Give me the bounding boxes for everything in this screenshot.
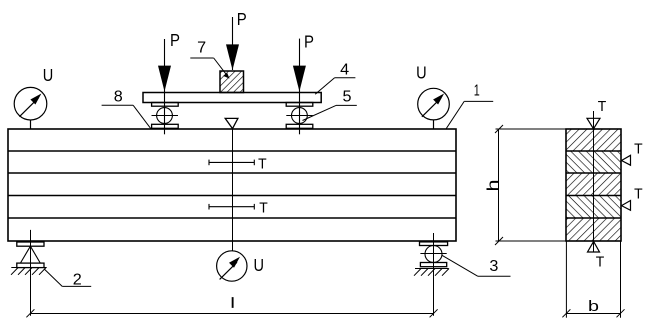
svg-text:T: T bbox=[258, 155, 267, 172]
leader 2 bbox=[44, 269, 91, 287]
dimension b extension left bbox=[565, 241, 567, 318]
roller right bottom plate bbox=[286, 124, 313, 128]
support right crosshair bbox=[420, 253, 446, 255]
dimension h tick bottom bbox=[495, 237, 503, 245]
svg-text:h: h bbox=[485, 180, 502, 192]
leader 3 bbox=[442, 255, 511, 276]
lamination line 4 bbox=[8, 217, 456, 219]
support left (pin): upper plate bbox=[17, 242, 44, 246]
dimension l tick right bbox=[430, 309, 438, 317]
dimension h extension top bbox=[496, 128, 567, 130]
dimension l tick left bbox=[26, 309, 34, 317]
svg-text:U: U bbox=[416, 63, 427, 83]
svg-text:b: b bbox=[588, 299, 599, 315]
center pointer triangle bbox=[225, 118, 238, 128]
beam centerline bbox=[232, 129, 234, 251]
section pointer right 1 bbox=[622, 155, 631, 165]
support right hatching bbox=[414, 269, 449, 276]
beam (test specimen) outline bbox=[8, 129, 456, 241]
svg-text:U: U bbox=[254, 255, 265, 275]
svg-text:U: U bbox=[43, 65, 54, 85]
load line P center bbox=[232, 17, 234, 70]
svg-text:P: P bbox=[237, 9, 247, 29]
svg-text:5: 5 bbox=[343, 89, 352, 106]
dimension h line bbox=[498, 129, 500, 241]
dimension l line bbox=[31, 313, 434, 315]
dial gauge U bottom bbox=[217, 251, 247, 281]
svg-text:1: 1 bbox=[474, 83, 480, 100]
cross-section layer lines bbox=[566, 151, 621, 218]
load line P right bbox=[299, 39, 301, 135]
roller left (8): top plate bbox=[152, 103, 179, 107]
strain mark T1 bar bbox=[209, 160, 254, 166]
svg-text:3: 3 bbox=[489, 258, 498, 275]
roller right (5): top plate bbox=[286, 103, 313, 107]
support right centerline / extension bbox=[433, 233, 435, 316]
spreader beam 4 bbox=[143, 93, 321, 103]
support left base plate bbox=[17, 263, 44, 268]
cross-section layer 4 hatch bbox=[566, 196, 621, 219]
dial gauge U right bbox=[418, 88, 450, 129]
svg-text:8: 8 bbox=[114, 89, 123, 106]
support left hatching bbox=[11, 268, 46, 275]
cross-section centerline bbox=[593, 111, 595, 252]
lamination line 3 bbox=[8, 195, 456, 197]
svg-text:7: 7 bbox=[197, 39, 206, 56]
leader 1 bbox=[446, 101, 493, 128]
dimension b line bbox=[566, 313, 620, 315]
svg-text:T: T bbox=[596, 254, 605, 271]
svg-text:P: P bbox=[304, 32, 314, 52]
cross-section layer 1 hatch bbox=[566, 129, 621, 151]
leader 5 bbox=[303, 105, 357, 120]
strain mark T2 bar bbox=[209, 204, 254, 210]
roller left bottom plate bbox=[152, 124, 179, 128]
lamination line 2 bbox=[8, 172, 456, 174]
support right (roller): upper plate bbox=[420, 242, 448, 246]
cross-section layer 5 hatch bbox=[566, 218, 621, 241]
svg-text:T: T bbox=[634, 186, 643, 203]
leader 8 bbox=[102, 105, 151, 128]
support left ground line bbox=[11, 267, 46, 269]
cross-section outline bbox=[566, 129, 621, 241]
dimension b extension right bbox=[620, 241, 622, 318]
load block 7 bbox=[220, 71, 244, 93]
svg-text:T: T bbox=[598, 98, 607, 115]
support right ground line bbox=[415, 268, 449, 270]
cross-section layer 2 hatch bbox=[566, 151, 621, 173]
support right circle bbox=[425, 246, 442, 263]
dial gauge U left bbox=[14, 87, 47, 129]
svg-text:T: T bbox=[634, 140, 643, 157]
svg-text:l: l bbox=[231, 296, 234, 311]
section pointer bottom bbox=[588, 242, 600, 253]
leader 7 bbox=[190, 58, 228, 77]
support left centerline / extension bbox=[30, 230, 32, 316]
dimension b tick left bbox=[562, 309, 570, 317]
section pointer top bbox=[587, 118, 600, 129]
roller left crosshair bbox=[152, 115, 179, 117]
svg-text:2: 2 bbox=[73, 272, 82, 289]
svg-text:T: T bbox=[259, 200, 268, 217]
roller left circle bbox=[157, 108, 173, 124]
svg-text:4: 4 bbox=[340, 61, 349, 78]
dimension h extension bottom bbox=[496, 240, 567, 242]
leader 4 bbox=[315, 78, 355, 95]
roller right crosshair bbox=[286, 115, 313, 117]
cross-section layer 3 hatch bbox=[566, 173, 621, 196]
lamination line 1 bbox=[8, 150, 456, 152]
support left triangle bbox=[20, 246, 40, 263]
load line P left bbox=[164, 39, 166, 134]
svg-text:P: P bbox=[170, 30, 180, 50]
support right base plate bbox=[420, 263, 446, 267]
dimension h tick top bbox=[495, 125, 503, 133]
dimension b tick right bbox=[617, 309, 625, 317]
section pointer right 2 bbox=[622, 201, 631, 211]
roller right circle bbox=[292, 108, 308, 124]
